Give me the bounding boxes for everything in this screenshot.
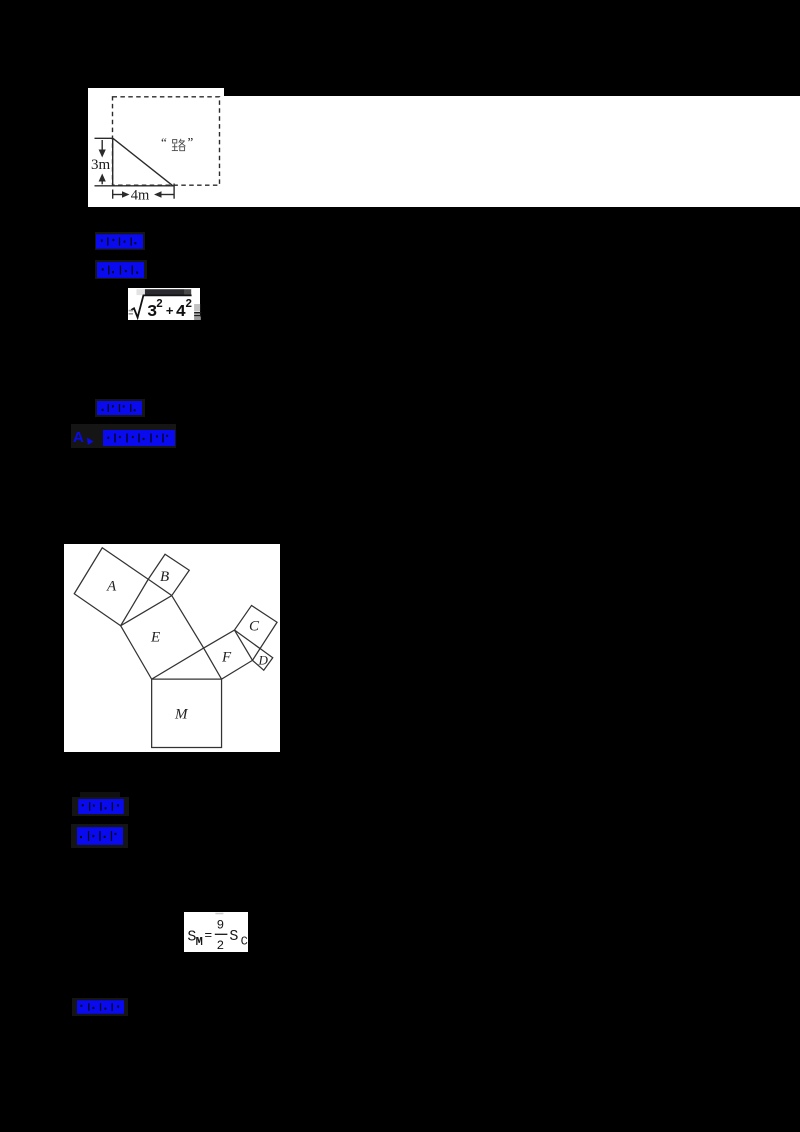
square F (203, 630, 252, 679)
svg-text:M: M (174, 706, 189, 722)
arrowhead right (122, 191, 130, 198)
4m right end tick (173, 184, 175, 199)
svg-text:4m: 4m (131, 187, 150, 203)
svg-text:A: A (106, 578, 117, 594)
4m left end tick (112, 190, 114, 199)
blue label 7 (72, 998, 128, 1016)
svg-text:2: 2 (185, 297, 192, 310)
blue label 2 (95, 260, 147, 279)
blue label 1 (95, 232, 145, 250)
4m dim left segment (113, 194, 124, 196)
svg-text:2: 2 (156, 297, 163, 310)
svg-text:“: “ (161, 135, 167, 150)
square B (148, 554, 189, 595)
formula 1: sqrt(3^2+4^2) image (128, 288, 200, 320)
blue label 3 (95, 399, 145, 417)
right gray block (194, 304, 200, 311)
svg-text:E: E (150, 629, 160, 645)
figure: pythagorean squares image box (64, 544, 280, 752)
arrowhead left (154, 191, 162, 198)
answer line A (71, 424, 176, 448)
dark top bar (144, 289, 184, 294)
right dark equals (194, 311, 201, 313)
dashed region "road" (113, 97, 220, 185)
svg-text:S: S (229, 928, 238, 945)
road glyph (CJK-like doodle) (172, 139, 186, 151)
arrowhead up (99, 174, 106, 182)
svg-text:D: D (257, 652, 268, 667)
blue label 6 (71, 824, 128, 848)
square C (234, 605, 277, 648)
svg-text:F: F (221, 649, 232, 665)
top tick line (95, 137, 114, 139)
blue label 5 (80, 792, 120, 797)
ground bottom line (95, 185, 175, 187)
square E (120, 595, 203, 679)
svg-text:=: = (204, 928, 212, 943)
bottom right gray (194, 316, 201, 320)
light gray square (136, 289, 144, 295)
square M (151, 679, 221, 747)
4m dim right segment (159, 194, 174, 196)
square A (74, 548, 148, 626)
svg-text:9: 9 (217, 918, 225, 932)
svg-text:3m: 3m (91, 157, 111, 173)
ramp diagram drawing (88, 88, 224, 207)
left gray equals (128, 309, 132, 311)
radical sign (131, 295, 191, 317)
3m upper arrow (down) (101, 140, 103, 152)
arrowhead down (99, 150, 106, 158)
hypotenuse (113, 138, 173, 186)
3m lower arrow (up) (101, 179, 103, 184)
figure: ramp diagram image box (88, 88, 224, 207)
svg-text:+: + (165, 304, 173, 319)
svg-text:2: 2 (217, 939, 225, 952)
svg-text:C: C (241, 934, 248, 948)
svg-text:M: M (196, 935, 203, 949)
svg-text:C: C (249, 618, 260, 634)
formula 2: S_M = 9/2 S_C image (184, 912, 248, 952)
triangle left vertical side (112, 138, 114, 186)
square D (252, 648, 272, 670)
svg-text:B: B (160, 569, 169, 585)
white band (page line with inline white images) (223, 96, 800, 207)
svg-text:”: ” (188, 135, 194, 150)
